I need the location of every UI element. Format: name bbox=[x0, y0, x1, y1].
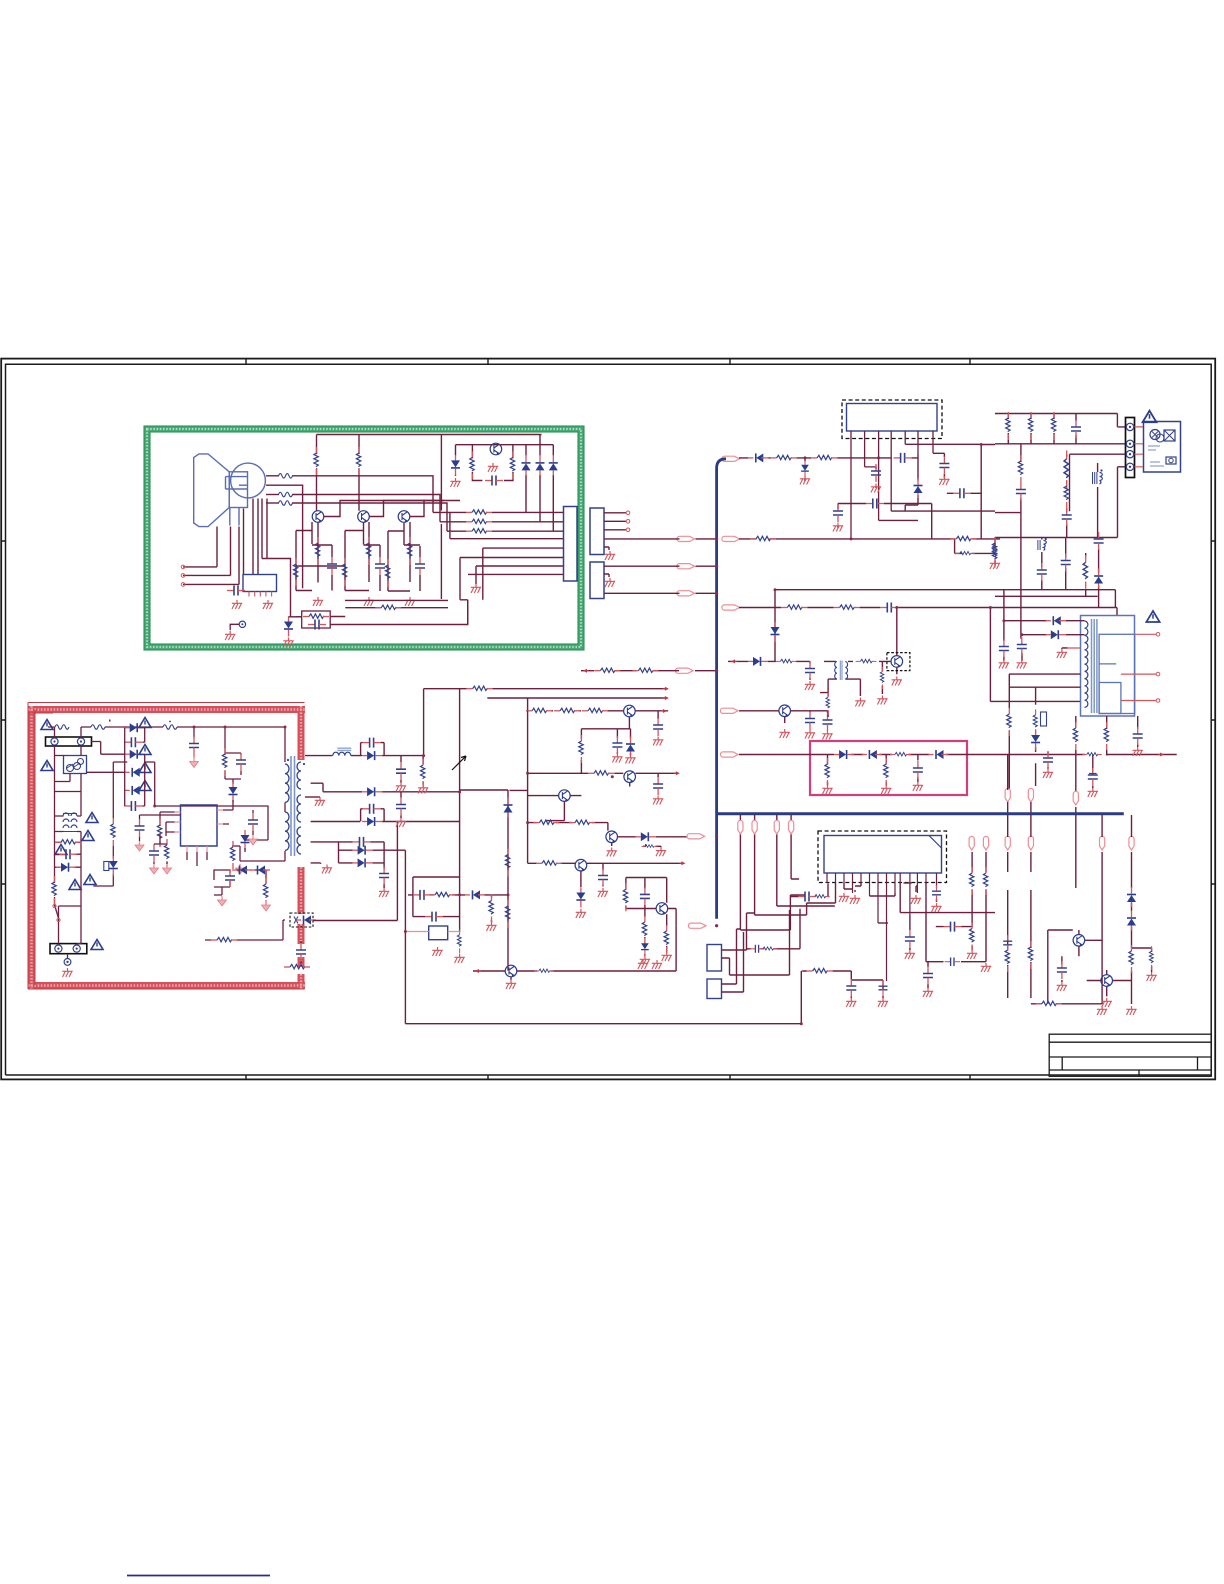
driver transformer small bbox=[835, 661, 848, 681]
zener shunt bbox=[296, 943, 306, 961]
flyback pins bbox=[1064, 634, 1157, 700]
trimmer vertical line bbox=[460, 689, 508, 971]
snubber diode bbox=[229, 782, 238, 802]
sec diode b bbox=[250, 866, 270, 875]
sec diode a bbox=[232, 866, 252, 875]
IC pins bottom bbox=[827, 873, 937, 981]
right side: transistor by bus bbox=[779, 705, 791, 717]
line y590 to right column bbox=[775, 590, 995, 662]
cap cluster bbox=[485, 476, 503, 486]
resistor cluster left bbox=[470, 451, 474, 479]
ground stair bbox=[471, 584, 481, 593]
caps right of PWM bbox=[248, 813, 258, 831]
startup res v bbox=[111, 818, 115, 846]
T5 emitter network bbox=[581, 717, 630, 773]
warning triangle 7 bbox=[84, 875, 96, 885]
pink box feed wire bbox=[739, 755, 1022, 786]
connector rect B bbox=[590, 562, 604, 599]
top dashed IC box bbox=[842, 400, 942, 439]
res y538 right bbox=[950, 536, 976, 540]
rc pair mid bbox=[149, 844, 159, 862]
wires resistor rows bbox=[433, 512, 564, 624]
line y661 east-west run bbox=[728, 608, 897, 718]
top line y457.9 bbox=[739, 445, 1000, 563]
triple resistors to connector bbox=[466, 510, 492, 514]
warning triangle above socket bbox=[1143, 411, 1157, 423]
gnd crystal a bbox=[432, 947, 442, 956]
res col c bbox=[1051, 412, 1055, 440]
diode up mid bbox=[914, 478, 923, 498]
fuse vertical bbox=[52, 876, 56, 904]
bus drop wires to IC bbox=[740, 815, 936, 930]
degauss coil symbol top bbox=[55, 725, 69, 730]
ovals right of bus bbox=[722, 456, 740, 461]
pink box res1 bbox=[825, 758, 829, 786]
gnd sec1 bbox=[396, 783, 406, 792]
warning triangle flyback bbox=[1146, 611, 1159, 622]
zener top bbox=[801, 461, 809, 478]
diode up c bbox=[549, 455, 558, 475]
choke L bbox=[333, 752, 351, 755]
main transformer T1 bbox=[285, 764, 289, 850]
snubber RC bbox=[225, 753, 241, 784]
thermistor bbox=[91, 725, 105, 730]
net line from bus y538.9 to right bbox=[717, 538, 851, 540]
ground below diode cluster bbox=[450, 478, 460, 487]
res col b bbox=[1028, 412, 1032, 440]
ground small under cap bbox=[190, 758, 199, 768]
sec cap bbox=[225, 869, 235, 887]
transistor row2 bbox=[528, 711, 678, 864]
res fb h bbox=[1082, 753, 1102, 756]
cap y503 bbox=[866, 499, 884, 509]
diode down on x775 bbox=[771, 622, 780, 642]
vcc cap1 bbox=[135, 819, 145, 837]
sec filter cap 1 bbox=[396, 762, 406, 780]
placeholder groups bbox=[181, 435, 577, 647]
diode flyback a bbox=[1046, 616, 1066, 625]
sec rect diode 3 bbox=[362, 817, 382, 826]
snubber row1 bbox=[408, 877, 508, 923]
transistor V2 bbox=[358, 511, 370, 523]
gnd pair right of T10 bbox=[638, 960, 648, 969]
sec resistor bbox=[263, 878, 267, 906]
PWM wiring bbox=[160, 806, 233, 866]
gnd video bbox=[653, 737, 663, 746]
right caps cluster bbox=[900, 852, 995, 988]
resistor top col2 bbox=[356, 447, 360, 475]
res video1 bbox=[526, 708, 552, 712]
CRT picture tube V1 bbox=[194, 454, 266, 527]
transistor V3 bbox=[398, 511, 410, 523]
warning triangle 8 bbox=[91, 940, 103, 950]
caps left flyback bbox=[999, 640, 1009, 658]
wire box to right bbox=[330, 600, 468, 625]
bottom hyperlink underline bbox=[127, 1575, 270, 1577]
transistor V4 top bbox=[490, 443, 502, 455]
zener pair right bbox=[1127, 887, 1136, 907]
res left drv bbox=[826, 692, 830, 714]
sec filter cap 2 bbox=[396, 798, 406, 816]
top rail to transformer bbox=[127, 727, 285, 762]
b+ resistors below flyback bbox=[1007, 708, 1011, 736]
AV jack 2 bbox=[707, 979, 722, 999]
choke core bbox=[337, 748, 351, 750]
warning triangle mains 2 bbox=[41, 761, 53, 771]
cap+res under IC bbox=[798, 892, 816, 902]
pink box diode c bbox=[929, 750, 949, 759]
crystal box bbox=[429, 926, 448, 940]
long res bbox=[1064, 450, 1068, 489]
pink box res2 bbox=[884, 758, 888, 786]
IC top pins bbox=[851, 431, 981, 539]
warning triangle 4 bbox=[82, 831, 94, 841]
gnd arrows rc bbox=[150, 864, 159, 874]
bridge caps bbox=[124, 737, 142, 747]
frame zone ticks left bbox=[1, 541, 5, 884]
bridge rectifier diodes bbox=[125, 723, 145, 732]
yoke coils L bbox=[279, 474, 293, 479]
fuse F1 bbox=[163, 725, 177, 730]
degauss coil loop wires bbox=[48, 727, 91, 792]
left EMI transformer bbox=[63, 813, 77, 832]
pink box diode b bbox=[862, 750, 882, 759]
arrows sync bbox=[663, 687, 669, 691]
earth terminal bbox=[64, 959, 71, 966]
res jack bbox=[759, 947, 778, 950]
resistor cluster right bbox=[510, 451, 514, 479]
gnd center tap bbox=[315, 797, 325, 806]
gnds under IC bbox=[850, 895, 860, 904]
inductor w core bbox=[1093, 472, 1103, 484]
warning triangle 3 bbox=[86, 813, 98, 823]
long horizontals lower green bbox=[296, 600, 448, 616]
resistor top col1 bbox=[314, 447, 318, 475]
cap fb bbox=[1043, 751, 1053, 769]
secondary rectifier rail wires bbox=[305, 743, 801, 1024]
cap under IC right bbox=[932, 885, 941, 901]
jack wires bbox=[722, 909, 801, 992]
cap right top bbox=[939, 457, 949, 475]
frame zone ticks top bbox=[246, 359, 970, 365]
res top line b bbox=[811, 455, 837, 459]
wires caps tops bbox=[312, 545, 420, 591]
sense resistor bbox=[230, 841, 234, 869]
diode up a bbox=[522, 455, 531, 475]
flyback left wires bbox=[1004, 513, 1177, 798]
PWM IC box bbox=[181, 805, 218, 846]
spark gap bbox=[239, 621, 245, 627]
res video2 bbox=[554, 708, 580, 712]
diode up b bbox=[536, 455, 545, 475]
main blue bus horizontal bbox=[717, 812, 1124, 815]
grounds under transistor columns bbox=[313, 597, 323, 606]
main blue bus vertical bbox=[717, 459, 726, 919]
vertical ovals below bus bbox=[738, 820, 743, 834]
emitter resistors bbox=[315, 537, 319, 565]
hout transistor dashed bbox=[887, 653, 910, 671]
cap mid bbox=[871, 464, 881, 482]
warning triangle 6 bbox=[69, 880, 81, 890]
diode mid ladder bbox=[504, 798, 513, 818]
wire yoke outputs bbox=[266, 476, 447, 588]
res v right edge bbox=[992, 540, 996, 568]
transistor right a bbox=[1073, 935, 1085, 947]
transistor V1 bbox=[312, 511, 324, 523]
ground below diode bbox=[283, 638, 293, 647]
cap pile bbox=[1088, 768, 1098, 786]
AV jack 1 bbox=[707, 945, 722, 972]
ground IC left bbox=[232, 600, 242, 609]
CRT socket box bbox=[1144, 422, 1181, 473]
res mid col bbox=[1018, 455, 1022, 483]
cap v left bbox=[833, 504, 843, 522]
pink box resistor bbox=[890, 752, 911, 756]
connector rect A right of green box bbox=[590, 508, 604, 555]
optocoupler bbox=[290, 913, 313, 927]
connector J green bbox=[564, 507, 578, 582]
ground IC right bbox=[263, 600, 273, 609]
X cap bbox=[59, 849, 77, 859]
gnd arrow cap1 bbox=[135, 841, 144, 851]
open wires from connector A bbox=[604, 513, 717, 594]
horizontal pink ovals left of bus bbox=[677, 536, 695, 541]
transistor T8 bbox=[606, 831, 618, 843]
jungle IC dashed box bbox=[818, 831, 947, 883]
opto wires bbox=[267, 920, 285, 940]
cap input filter bbox=[189, 737, 199, 755]
cap polar top bbox=[894, 453, 912, 463]
AC inlet connector top bbox=[46, 737, 92, 746]
title block bbox=[1049, 1034, 1211, 1076]
res ladder1 bbox=[505, 849, 509, 877]
cap mid cluster bbox=[1037, 563, 1047, 581]
wire diode to resistor box bbox=[289, 616, 302, 618]
clamp diode pair bbox=[56, 863, 76, 872]
ind mid bbox=[1038, 540, 1046, 550]
res fb cols bbox=[1073, 722, 1077, 750]
cap jack bbox=[750, 945, 764, 953]
cap y661 bbox=[805, 662, 815, 680]
startup rail bbox=[93, 762, 127, 886]
startup resistor bbox=[157, 819, 161, 847]
gnd sec res bbox=[418, 785, 428, 794]
feedback resistor h bbox=[211, 937, 237, 941]
emi trans wires bbox=[55, 792, 82, 959]
sec rect diode 5 bbox=[353, 858, 373, 867]
resistor low bbox=[375, 605, 401, 609]
transistor right b bbox=[1101, 975, 1113, 987]
frame outer border bbox=[1, 359, 1215, 1080]
res below hout bbox=[880, 667, 884, 689]
res col a bbox=[1006, 412, 1010, 440]
res y661 b bbox=[856, 659, 877, 663]
IC U101 CRT board bbox=[243, 575, 277, 592]
AC connector bottom bbox=[50, 944, 87, 954]
cap h n bbox=[953, 488, 971, 498]
PWM pins left bbox=[175, 810, 224, 852]
gnd tap 4 bbox=[322, 865, 332, 874]
warning triangle 5 bbox=[55, 845, 67, 855]
warning triangle mains 1 bbox=[41, 720, 53, 730]
gnd crystal b bbox=[454, 954, 464, 963]
shunt zener bbox=[109, 856, 118, 876]
sec cap loop 1 bbox=[363, 738, 381, 748]
transistor bottom left bbox=[505, 965, 517, 977]
pink box diode a bbox=[834, 750, 854, 759]
diode flyback b bbox=[1046, 630, 1066, 639]
diode y661 bbox=[748, 657, 768, 666]
res video3 bbox=[582, 708, 608, 712]
left res + gnd bbox=[992, 537, 996, 565]
cap + res right bottom bbox=[1057, 961, 1067, 979]
sec cap loop 3 bbox=[363, 804, 381, 814]
right col verticals below bus bbox=[1008, 755, 1152, 1005]
cap col bbox=[1071, 420, 1081, 438]
top rail green box bbox=[317, 435, 554, 600]
earth ground bbox=[62, 968, 72, 977]
gnd sec2 bbox=[396, 818, 406, 827]
pink box cap bbox=[913, 761, 923, 779]
frame inner border bbox=[6, 364, 1212, 1075]
emitter caps bbox=[327, 557, 337, 575]
net line y607.5 bbox=[739, 607, 1099, 609]
diode down fb bbox=[1031, 730, 1040, 750]
switch contacts bbox=[53, 904, 56, 907]
resistor line y670 bbox=[581, 670, 717, 672]
res right col bbox=[1005, 944, 1009, 972]
gnd con B bbox=[605, 578, 615, 587]
sec cap row 4 bbox=[353, 837, 371, 847]
trimmer arrow bbox=[452, 756, 466, 770]
snubber diode T bbox=[241, 830, 250, 850]
sec res 1 bbox=[421, 759, 425, 787]
diode green cluster bbox=[451, 455, 460, 475]
transistor T7 bbox=[559, 790, 571, 802]
sec gnd arrows bbox=[218, 896, 227, 906]
sec rect diode 2 bbox=[362, 787, 382, 796]
resistor box R+C bbox=[302, 611, 331, 628]
res top line a bbox=[771, 455, 797, 459]
sec rect diode 4 bbox=[353, 846, 373, 855]
res ladder2 bbox=[505, 900, 509, 928]
filter resistor bbox=[55, 840, 81, 844]
T10 network bbox=[626, 878, 676, 956]
res y553 bbox=[955, 551, 975, 554]
sec filter cap 3 bbox=[379, 867, 389, 885]
transistor row wires bbox=[296, 501, 460, 592]
res bottom bbox=[807, 968, 833, 972]
frame zone ticks bottom bbox=[246, 1075, 970, 1079]
terminals CRT base bbox=[181, 565, 185, 569]
h sync lines bbox=[424, 689, 669, 756]
gnd con A bbox=[605, 551, 615, 560]
cap video bbox=[653, 718, 663, 736]
gnd sec3 bbox=[379, 888, 389, 897]
res y661 a bbox=[776, 659, 797, 663]
diode D queue bbox=[284, 617, 293, 637]
sec rect diode 1 bbox=[362, 751, 382, 760]
transformer wires bbox=[232, 803, 285, 862]
secondary rect area wires bbox=[214, 870, 266, 895]
diode top line bbox=[748, 453, 768, 462]
transistor video bbox=[624, 705, 636, 717]
ground V4 bbox=[488, 463, 498, 472]
frame zone ticks right bbox=[1211, 541, 1215, 884]
bridge wiring bbox=[87, 728, 234, 806]
transistor T9 row bbox=[575, 859, 587, 871]
ground spark gap bbox=[225, 631, 235, 640]
line filter box bbox=[64, 756, 87, 774]
wire CRT base drops bbox=[183, 499, 291, 617]
ovals right col bbox=[1005, 788, 1010, 802]
